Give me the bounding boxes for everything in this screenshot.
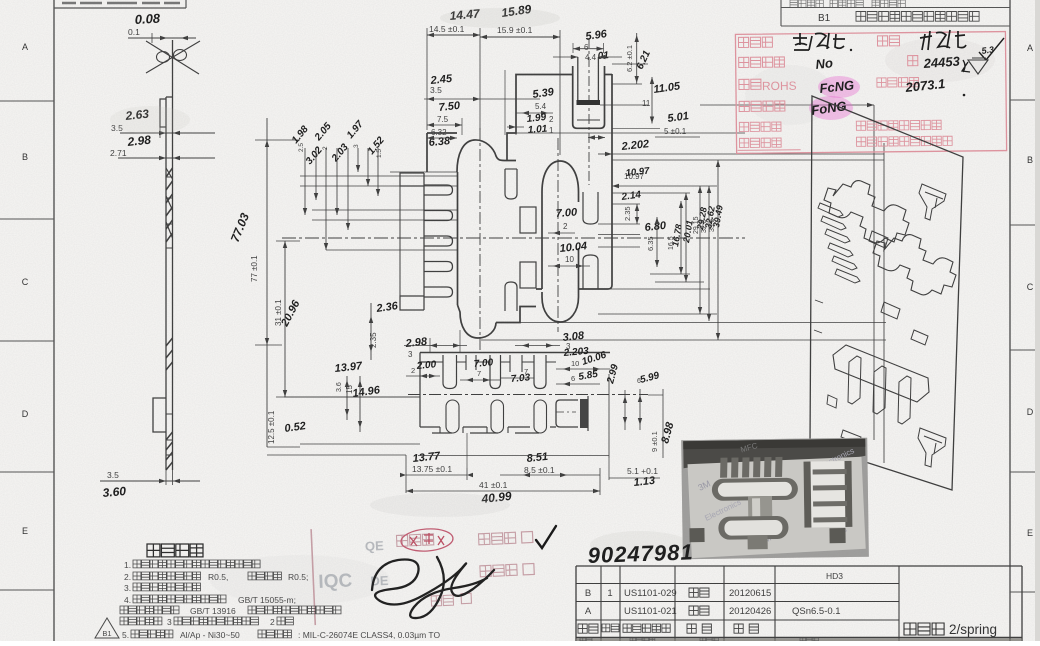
hook fold dark band [577,100,601,105]
red stamp row5 [739,122,781,132]
svg-text:A: A [1027,43,1033,53]
photo part lower stadium [718,516,788,540]
svg-text:3.6: 3.6 [336,382,343,392]
svg-text:3: 3 [167,617,172,627]
svg-text:QE: QE [365,538,385,554]
lower view upper slots [443,355,457,389]
svg-text:2: 2 [411,366,415,375]
iso bracket top-right [919,184,946,220]
pink highlight blob FcNG [818,76,860,98]
svg-text:2: 2 [322,146,329,150]
triangle check mark [968,58,988,74]
red stamp row4 inspection [739,101,785,112]
svg-text:24453: 24453 [922,53,961,71]
svg-text:2.: 2. [124,572,131,582]
side view middle hatch band [166,338,173,346]
vertical centerline left bump [479,128,481,352]
svg-text:2.98: 2.98 [404,336,428,350]
svg-text:2/spring: 2/spring [949,622,997,637]
svg-text:1.13: 1.13 [633,475,656,489]
svg-text:No: No [815,55,834,72]
svg-text:11: 11 [642,99,651,108]
svg-text:A: A [585,606,592,617]
svg-text:3.5: 3.5 [107,470,119,480]
title block part name [904,623,944,635]
photo part middle bar [748,496,772,522]
svg-text:B: B [585,588,591,599]
photo part lower tail [748,535,768,549]
svg-text:5.4: 5.4 [535,102,547,111]
svg-text:B: B [1027,155,1033,165]
scan smudges [440,8,560,28]
svg-text:77 ±0.1: 77 ±0.1 [250,255,259,282]
IQC red handwritten circled [400,527,453,553]
svg-text:2: 2 [563,222,568,231]
red stamp row2 material lot [739,57,785,68]
svg-text:0.1: 0.1 [128,27,140,37]
svg-text:B1: B1 [818,13,831,24]
part bump bottom-left [458,305,497,338]
title block row lines [576,583,899,585]
part left edge comb spine [457,172,459,305]
svg-text:ROHS: ROHS [762,79,797,93]
side view flatten symbol [146,41,199,74]
part bottom edge left of tongue [496,289,542,323]
iso cutout spring lower [873,235,956,295]
lower left extension lines [284,396,420,398]
tech req line 5 [120,606,179,614]
IQC checkmark [536,526,556,548]
extra extension lines [516,132,745,134]
svg-text:6.2 ±0.1: 6.2 ±0.1 [625,45,634,72]
inner tab lower-left [505,282,517,311]
side view profile [172,40,174,97]
title block bottom cut row [580,638,899,641]
svg-text:US1101-021: US1101-021 [624,606,677,617]
svg-text:5.: 5. [122,630,129,640]
top cluster dim lines [304,148,306,215]
svg-text:A: A [22,42,28,52]
top-left title box [54,7,186,9]
vertical centerline hook [588,38,590,185]
extension lines top [504,70,506,135]
lower view upper slot connectors [436,361,556,363]
svg-text:C: C [22,277,29,287]
svg-text:41 ±0.1: 41 ±0.1 [479,480,508,490]
svg-text:: MIL-C-26074E CLASS4, 0.03µm: : MIL-C-26074E CLASS4, 0.03µm TO [298,630,440,640]
lower view top rail [420,352,610,354]
part top edge step [507,75,573,161]
iso lower frame bars [848,356,911,424]
handwritten name Park [920,30,966,50]
svg-text:US1101-029: US1101-029 [624,588,677,599]
svg-text:D: D [1027,407,1034,417]
svg-text:14.5 ±0.1: 14.5 ±0.1 [429,24,465,34]
hook inner bottom [577,119,600,121]
svg-text:4.: 4. [124,595,131,605]
lower view right clip [556,400,578,427]
extension line y455 [418,455,609,457]
svg-text:Al/Ap - Ni30~50: Al/Ap - Ni30~50 [180,630,240,640]
part top edge right of hook [605,74,613,76]
svg-text:2.5: 2.5 [298,143,305,152]
svg-text:2.71: 2.71 [110,148,127,158]
title block header row [578,624,598,633]
svg-text:1.01: 1.01 [527,124,548,136]
svg-text:3.60: 3.60 [102,484,127,500]
svg-text:1.5: 1.5 [376,149,383,158]
svg-text:0.08: 0.08 [134,11,161,27]
red stamp row6 [739,138,781,148]
svg-text:2.35: 2.35 [623,206,632,221]
svg-text:9 ±0.1: 9 ±0.1 [650,431,659,452]
tech req line 6 [120,617,162,625]
iso cutout teeth diagonal row [818,203,843,217]
photo background [681,438,869,560]
part right edge [579,74,613,289]
hook tab inner lines [578,57,599,100]
inner rect cutout upper [520,207,536,233]
left border line [53,0,55,641]
svg-text:3: 3 [353,144,360,148]
iso plate outline [810,96,963,490]
svg-text:4.4: 4.4 [585,53,597,62]
iso cutout inner notch upper [869,231,888,248]
title block column lines [600,566,602,638]
svg-text:7.50: 7.50 [438,100,461,114]
svg-text:7: 7 [524,367,528,376]
photo part upper stadium [712,478,798,501]
iso lower small tabs [827,395,861,444]
inner bars right of tongue [583,192,598,224]
svg-text:2.98: 2.98 [126,133,152,150]
svg-text:10: 10 [565,255,574,264]
svg-text:7.5: 7.5 [437,115,449,124]
right vertical dim stack lines [680,201,682,274]
svg-text:6: 6 [584,43,589,52]
svg-text:1.: 1. [124,560,131,570]
svg-text:5 ±0.1: 5 ±0.1 [664,127,687,136]
comb left rail [423,173,425,310]
side view foot [153,398,166,432]
iso cutout spring upper [824,181,909,243]
title block outer lines [576,565,1022,567]
svg-text:20120615: 20120615 [729,588,771,599]
red stamp row1 supplier [738,37,772,47]
svg-text:E: E [22,526,28,536]
svg-text:10: 10 [571,359,579,368]
svg-text:GB/T 13916: GB/T 13916 [190,606,236,616]
svg-text:2.00: 2.00 [415,359,437,372]
photo part comb teeth [720,458,727,478]
svg-text:1: 1 [607,588,612,599]
left extension lines to part [300,175,457,177]
comb teeth bars [424,185,453,195]
svg-text:GB/T 15055-m;: GB/T 15055-m; [238,595,296,605]
svg-text:5.3: 5.3 [981,44,995,56]
svg-text:20120426: 20120426 [729,606,771,617]
photo dark top band [683,439,865,469]
inner tab upper-left [505,169,517,199]
right zone ticks [1010,99,1040,101]
svg-text:6: 6 [571,374,575,383]
handwritten name Huang [793,33,845,50]
svg-text:IQC: IQC [318,570,353,592]
side view hatching upper [166,168,173,177]
svg-text:E: E [1027,528,1033,538]
inner rect cutout lower [520,262,536,288]
svg-text:R0.5,: R0.5, [208,572,228,582]
svg-text:3.5: 3.5 [430,85,442,95]
svg-text:90247981: 90247981 [587,539,694,568]
right extension h-lines [650,273,690,275]
IQC big signature scrawl [372,557,494,618]
svg-text:R0.5;: R0.5; [288,572,308,582]
part bump top-left [457,140,516,172]
svg-text:B1: B1 [102,629,111,638]
right border line [1009,0,1011,641]
svg-text:2: 2 [270,617,275,627]
lower view bottom rail [420,426,440,428]
svg-text:2: 2 [549,115,554,124]
horizontal centerline main [282,237,745,239]
iso small marks left edge [814,300,823,333]
lower view right extension lines [608,374,610,458]
revision table header text [790,0,823,7]
photo light board [687,457,865,558]
hook tab outer [573,66,605,128]
svg-text:B: B [22,152,28,162]
revision table lines [781,7,1010,9]
svg-text:6.35: 6.35 [646,236,655,251]
svg-text:7: 7 [477,369,481,378]
svg-text:7.00: 7.00 [555,206,578,220]
right paper edge shading [1035,0,1040,641]
lower view centerline [408,394,648,396]
svg-text:8.51: 8.51 [526,451,549,465]
svg-text:QSn6.5-0.1: QSn6.5-0.1 [792,606,841,617]
part top column [427,133,457,172]
pink highlight blob FONG [809,96,853,120]
svg-text:13.75 ±0.1: 13.75 ±0.1 [412,464,452,474]
svg-text:3: 3 [408,350,413,359]
vertical centerline tongue [557,138,559,332]
side view top notch [160,99,166,127]
tech requirements title [147,544,203,557]
svg-text:3.: 3. [124,583,131,593]
tech req B1 triangle [95,618,119,638]
red stamp border [735,32,1006,154]
svg-text:D: D [22,409,29,419]
tall extension verticals right [873,105,875,440]
left zone ticks [0,100,54,102]
IQC stamp group [311,520,536,626]
iso lower frame [833,345,929,402]
tongue outline [542,161,579,202]
svg-text:12.5 ±0.1: 12.5 ±0.1 [267,410,276,444]
svg-text:1: 1 [549,126,554,135]
ext lines mid right [598,223,640,225]
red stamp row3 ROHS [739,79,761,89]
photo right ladder part [804,461,853,528]
svg-text:C: C [1027,282,1034,292]
iso bracket bottom-right [918,428,946,467]
svg-text:HD3: HD3 [826,571,843,581]
lower view lower slots [446,400,459,433]
photo small dark squares [689,528,704,542]
comb outer tabs [400,173,424,186]
